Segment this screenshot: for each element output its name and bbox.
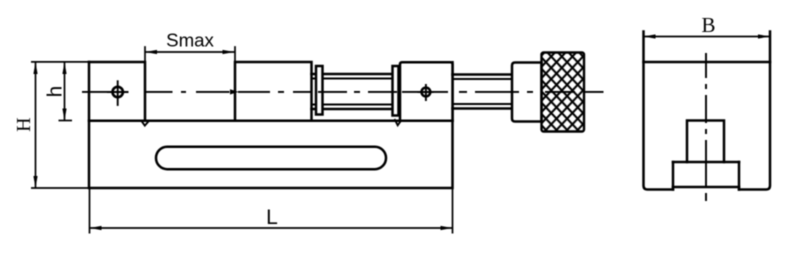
spindle collar <box>512 63 542 122</box>
base top slide line <box>89 120 453 123</box>
Smax extension (moving jaw edge up) <box>234 47 236 62</box>
fixed jaw hole <box>107 80 129 106</box>
end view body outline <box>644 61 771 64</box>
vise body base outline <box>89 62 453 188</box>
moving jaw block <box>235 62 312 121</box>
dimension h <box>59 62 73 121</box>
Smax extension (fixed jaw edge up) <box>144 47 146 62</box>
relief notch at fixed jaw <box>142 121 149 126</box>
base slot (elongated hole) <box>156 147 386 170</box>
dimension B <box>644 36 771 38</box>
spindle section 2 outer lines <box>453 73 513 76</box>
main centerline <box>82 91 604 93</box>
guide tenon <box>672 162 675 190</box>
knurled thimble knob <box>542 53 585 132</box>
svg-text:H: H <box>13 117 35 131</box>
svg-text:L: L <box>266 206 278 229</box>
relief notch at bracket <box>395 119 401 125</box>
center boss <box>687 121 724 163</box>
screw bracket block <box>400 62 453 121</box>
leadscrew section 1 root lines <box>312 78 401 80</box>
svg-text:Smax: Smax <box>166 30 214 51</box>
svg-text:B: B <box>701 13 715 37</box>
bracket hole <box>418 84 434 101</box>
spindle section 2 inner lines <box>453 78 513 80</box>
end view centerline <box>705 53 707 201</box>
svg-text:h: h <box>43 86 66 97</box>
jaw travel arrow <box>230 89 239 94</box>
screw flange at bracket <box>393 66 399 116</box>
dimension H <box>31 62 89 188</box>
dimension Smax <box>145 51 235 53</box>
fixed jaw block <box>89 62 145 121</box>
leadscrew section 1 outer lines <box>312 73 401 76</box>
screw flange at moving jaw <box>316 66 323 115</box>
dimension L <box>90 188 453 234</box>
